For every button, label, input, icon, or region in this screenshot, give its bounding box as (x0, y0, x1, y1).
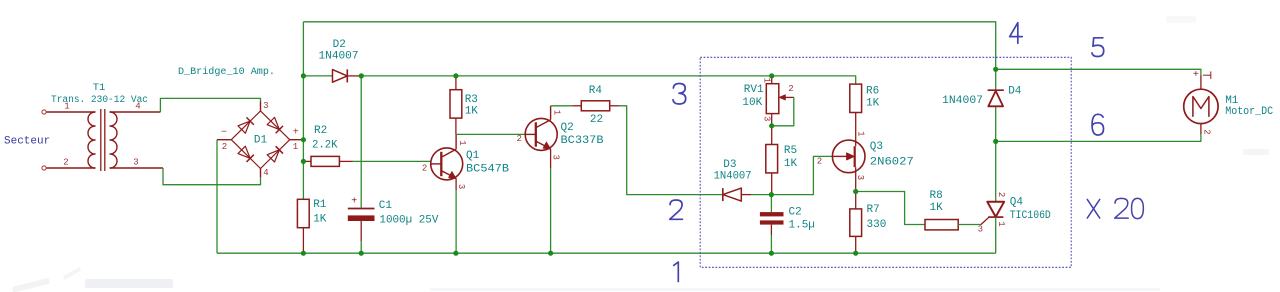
resistor R3 vertical (450, 76, 462, 134)
resistor R5 vertical (766, 126, 778, 195)
wire Q2 collector to R4 (551, 105, 573, 107)
transistor Q1 BC547B NPN (431, 134, 463, 253)
X 20 multiplier label (1087, 198, 1143, 218)
transformer T1 pin numbers 1 2 4 3 (63, 102, 140, 168)
svg-text:22: 22 (590, 114, 603, 126)
thyristor Q4 pin numbers (978, 192, 1007, 234)
wire D3 node to Q3 gate (771, 156, 832, 194)
svg-text:1K: 1K (313, 213, 327, 225)
motor M1 Motor_DC (1184, 70, 1218, 135)
resistor R7 labels (867, 204, 887, 231)
wire transformer pin3 to bridge AC bottom (163, 168, 261, 185)
svg-text:330: 330 (867, 219, 887, 231)
svg-text:2: 2 (516, 134, 521, 144)
motor M1 labels (1225, 95, 1273, 118)
resistor R7 vertical (850, 192, 862, 254)
svg-text:2: 2 (788, 84, 793, 94)
diode D2 labels (319, 39, 359, 63)
thyristor Q4 TIC106D (981, 141, 1004, 253)
capacitor C2 (760, 195, 784, 254)
resistor R6 labels (866, 86, 880, 110)
diode D4 1N4007 freewheel (988, 69, 1004, 141)
svg-text:+: + (351, 197, 357, 208)
capacitor C1 polarized (348, 197, 375, 254)
svg-text:3: 3 (855, 175, 865, 180)
svg-text:1: 1 (996, 221, 1006, 226)
svg-text:1.5µ: 1.5µ (789, 220, 815, 232)
svg-text:1K: 1K (930, 202, 944, 214)
bridge D1 pin marks + - and numbers (221, 101, 299, 178)
transistor Q1 pin numbers (422, 140, 467, 189)
svg-text:R8: R8 (930, 190, 943, 202)
svg-text:1K: 1K (465, 106, 479, 118)
svg-text:3: 3 (456, 184, 466, 189)
wire net 2 from R4 down to D3 (619, 106, 723, 195)
resistor R8 labels (930, 190, 944, 214)
bridge D1 reference label (254, 134, 268, 146)
transistor Q3 2N6027 PUT (832, 113, 865, 192)
svg-text:+: + (1193, 70, 1199, 81)
svg-text:+: + (293, 128, 299, 139)
diode D2 1N4007 (303, 69, 361, 82)
diode D3 1N4007 (723, 188, 772, 201)
svg-text:1K: 1K (866, 98, 880, 110)
svg-text:2: 2 (1202, 129, 1212, 134)
svg-text:2: 2 (63, 158, 68, 168)
svg-text:R4: R4 (589, 85, 603, 97)
wire net 3 rail from D2 to R6 (361, 76, 855, 84)
bridge D1 diode lower-right (AC-bottom to plus) (267, 146, 283, 162)
svg-text:3: 3 (133, 158, 138, 168)
svg-text:1000µ 25V: 1000µ 25V (379, 214, 438, 226)
junction dots net5 net6 at D4 (993, 67, 998, 144)
wire net 6 to motor (996, 134, 1201, 142)
resistor R5 labels (784, 145, 798, 170)
svg-text:TIC106D: TIC106D (1010, 210, 1051, 222)
transformer T1 reference and value labels (51, 82, 148, 106)
potentiometer RV1 10K (766, 76, 794, 126)
svg-text:3: 3 (550, 154, 560, 159)
svg-text:Motor_DC: Motor_DC (1225, 106, 1273, 118)
svg-text:2.2K: 2.2K (312, 139, 338, 151)
resistor R1 labels (313, 199, 327, 226)
wire D2 cathode down to C1 (360, 76, 362, 208)
thyristor Q4 labels (1010, 196, 1051, 222)
svg-text:BC547B: BC547B (466, 163, 509, 175)
potentiometer RV1 wiper wire to pin3 (772, 97, 794, 125)
node 4 label (1010, 23, 1023, 44)
svg-text:3: 3 (978, 224, 983, 234)
svg-text:C2: C2 (789, 207, 802, 219)
svg-text:3: 3 (762, 116, 772, 121)
svg-text:Q2: Q2 (561, 122, 574, 134)
node 3 label (673, 84, 686, 105)
svg-text:Secteur: Secteur (4, 136, 50, 148)
transistor Q2 pin numbers (516, 110, 561, 160)
svg-text:D4: D4 (1008, 86, 1022, 98)
resistor R6 vertical (850, 84, 862, 112)
transformer T1 symbol (42, 109, 163, 171)
svg-text:T1: T1 (93, 82, 106, 94)
bridge D1 value label D_Bridge_10 Amp. (178, 66, 275, 78)
bridge D1 diode upper-left (minus to AC-top) (238, 117, 254, 133)
svg-text:1N4007: 1N4007 (319, 51, 359, 63)
resistor R4 labels (589, 85, 603, 126)
node 1 label (674, 262, 679, 282)
junction dot D3 R5 C2 gate node (769, 192, 774, 197)
svg-text:2: 2 (222, 142, 227, 152)
transistor Q3 labels (870, 141, 914, 168)
resistor R3 labels (465, 94, 479, 117)
potentiometer RV1 pin numbers (762, 78, 794, 122)
node 5 label (1092, 38, 1104, 57)
svg-text:D2: D2 (333, 39, 346, 51)
junction dot Q3 cathode node (853, 189, 858, 194)
svg-text:R1: R1 (313, 199, 327, 211)
capacitor C2 labels (789, 207, 815, 232)
svg-text:R2: R2 (314, 125, 327, 137)
svg-text:Q3: Q3 (870, 141, 883, 153)
bridge D1 diode lower-left (minus to AC-bottom) (238, 146, 254, 162)
bridge rectifier D1 diamond body (217, 102, 303, 178)
svg-text:1N4007: 1N4007 (714, 171, 752, 183)
label Secteur (net name) (4, 136, 50, 148)
svg-text:1: 1 (762, 78, 772, 83)
node 6 label (1092, 114, 1103, 135)
resistor R1 vertical (297, 199, 309, 253)
wire Q3 cathode to R8 (856, 192, 925, 225)
junction dots on ground bus (301, 251, 859, 256)
junction dots on riser x303 (301, 73, 306, 164)
resistor R4 horizontal (572, 101, 619, 111)
svg-text:Q1: Q1 (466, 150, 480, 162)
wire R3 to Q2 base (456, 133, 526, 135)
svg-text:D_Bridge_10 Amp.: D_Bridge_10 Amp. (178, 66, 275, 78)
resistor R8 horizontal (925, 220, 981, 230)
svg-text:Trans. 230-12 Vac: Trans. 230-12 Vac (51, 95, 148, 106)
transistor Q2 labels (561, 122, 604, 147)
wire transformer pin4 to bridge AC top (160, 98, 260, 112)
svg-text:2: 2 (422, 164, 427, 174)
bridge D1 diode upper-right (AC-top to plus) (267, 117, 283, 133)
transistor Q2 BC337B NPN (525, 106, 557, 253)
svg-text:RV1: RV1 (744, 84, 764, 96)
svg-text:D1: D1 (254, 134, 268, 146)
dashed module boundary box (700, 57, 1071, 267)
wire DC plus vertical riser at x303 (302, 22, 304, 200)
svg-text:R3: R3 (465, 94, 478, 106)
svg-text:2: 2 (817, 157, 822, 167)
svg-text:Q4: Q4 (1010, 196, 1024, 208)
svg-text:1: 1 (293, 142, 298, 152)
svg-text:R5: R5 (784, 145, 797, 157)
svg-text:D3: D3 (723, 159, 736, 171)
svg-text:R6: R6 (866, 86, 879, 98)
svg-text:1: 1 (551, 110, 561, 115)
svg-text:1K: 1K (784, 158, 798, 170)
svg-text:1: 1 (457, 140, 467, 145)
svg-text:R7: R7 (867, 204, 880, 216)
wire ground bus bottom rail (217, 252, 996, 254)
node 2 label (670, 200, 683, 219)
potentiometer RV1 labels (742, 84, 764, 109)
capacitor C1 labels (379, 200, 439, 227)
svg-text:4: 4 (263, 168, 268, 178)
svg-text:10K: 10K (742, 97, 762, 109)
svg-text:1: 1 (856, 131, 866, 136)
svg-text:−: − (221, 128, 227, 139)
wire bridge minus down to ground bus (216, 140, 218, 254)
junction dots on net3 rail (359, 73, 775, 78)
resistor R2 labels (312, 125, 338, 151)
wire top line net 4 (303, 22, 995, 70)
svg-text:BC337B: BC337B (561, 135, 604, 147)
transistor Q3 pin numbers (817, 131, 866, 180)
svg-text:1N4007: 1N4007 (942, 95, 983, 107)
svg-text:C1: C1 (379, 200, 393, 212)
transistor Q1 labels (466, 150, 509, 176)
wire net 5 to motor (996, 69, 1201, 75)
svg-text:3: 3 (263, 101, 268, 111)
diode D4 labels (942, 86, 1022, 107)
resistor R2 horizontal (303, 156, 352, 166)
svg-text:2: 2 (996, 192, 1006, 197)
svg-text:2N6027: 2N6027 (870, 156, 914, 168)
junction dot RV1 wiper node (769, 123, 774, 128)
wire R2 to Q1 base (353, 160, 431, 162)
diode D3 labels (714, 159, 752, 183)
